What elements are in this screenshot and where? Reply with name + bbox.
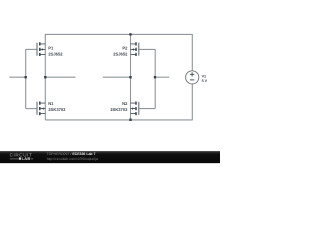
- svg-text:N2: N2: [122, 101, 128, 106]
- CircuitLab logo wire right: [31, 158, 34, 160]
- svg-text:TOPHERD097 / ECE336 Lab 7: TOPHERD097 / ECE336 Lab 7: [47, 152, 96, 156]
- node junction left bridge output: [44, 76, 46, 78]
- svg-text:2SJ652: 2SJ652: [48, 52, 63, 57]
- node junction right bridge output: [129, 76, 131, 78]
- transistor P1 (2SJ652): [37, 42, 45, 56]
- wire left gate rail: [25, 49, 27, 108]
- transistor P2 (2SJ652): [131, 42, 139, 56]
- wire right half-bridge vertical rail: [130, 34, 132, 120]
- svg-text:2SJ652: 2SJ652: [113, 52, 128, 57]
- wire N2 gate lead: [139, 108, 155, 110]
- svg-text:2SK3703: 2SK3703: [48, 107, 66, 112]
- svg-text:5 V: 5 V: [202, 79, 208, 83]
- watermark bar: [0, 151, 220, 163]
- wire bottom rail: [45, 119, 192, 121]
- wire right input stub: [155, 76, 169, 78]
- wire left half-bridge vertical rail: [44, 34, 46, 120]
- svg-text:P1: P1: [48, 46, 54, 51]
- wire right gate rail: [154, 49, 156, 108]
- CircuitLab logo square: [19, 157, 21, 159]
- transistor N2 (2SK3703): [131, 102, 139, 116]
- svg-text:P2: P2: [122, 46, 128, 51]
- node junction left gate/input: [25, 76, 27, 78]
- wire N1 gate lead: [26, 108, 37, 110]
- node junction right gate/input: [154, 76, 156, 78]
- wire V1 top branch: [191, 34, 193, 71]
- svg-text:2SK3703: 2SK3703: [110, 107, 128, 112]
- wire P1 gate lead: [26, 48, 37, 50]
- wire left output stub: [45, 76, 75, 78]
- node junction top-right bridge: [129, 33, 131, 35]
- wire left input stub: [9, 76, 25, 78]
- svg-text:http://circuitlab.com/c97f58uq: http://circuitlab.com/c97f58uq4a5jw: [47, 157, 99, 161]
- transistor N1 (2SK3703): [37, 102, 45, 116]
- voltage source V1: [186, 71, 199, 84]
- wire top rail: [45, 33, 192, 35]
- svg-text:N1: N1: [48, 101, 54, 106]
- node junction bottom-right bridge: [129, 119, 131, 121]
- CircuitLab logo wire left: [10, 158, 19, 160]
- svg-text:V1: V1: [202, 74, 207, 78]
- wire V1 bottom branch: [191, 84, 193, 120]
- wire P2 gate lead: [139, 48, 155, 50]
- wire right output stub: [103, 76, 131, 78]
- svg-text:LAB: LAB: [22, 156, 31, 161]
